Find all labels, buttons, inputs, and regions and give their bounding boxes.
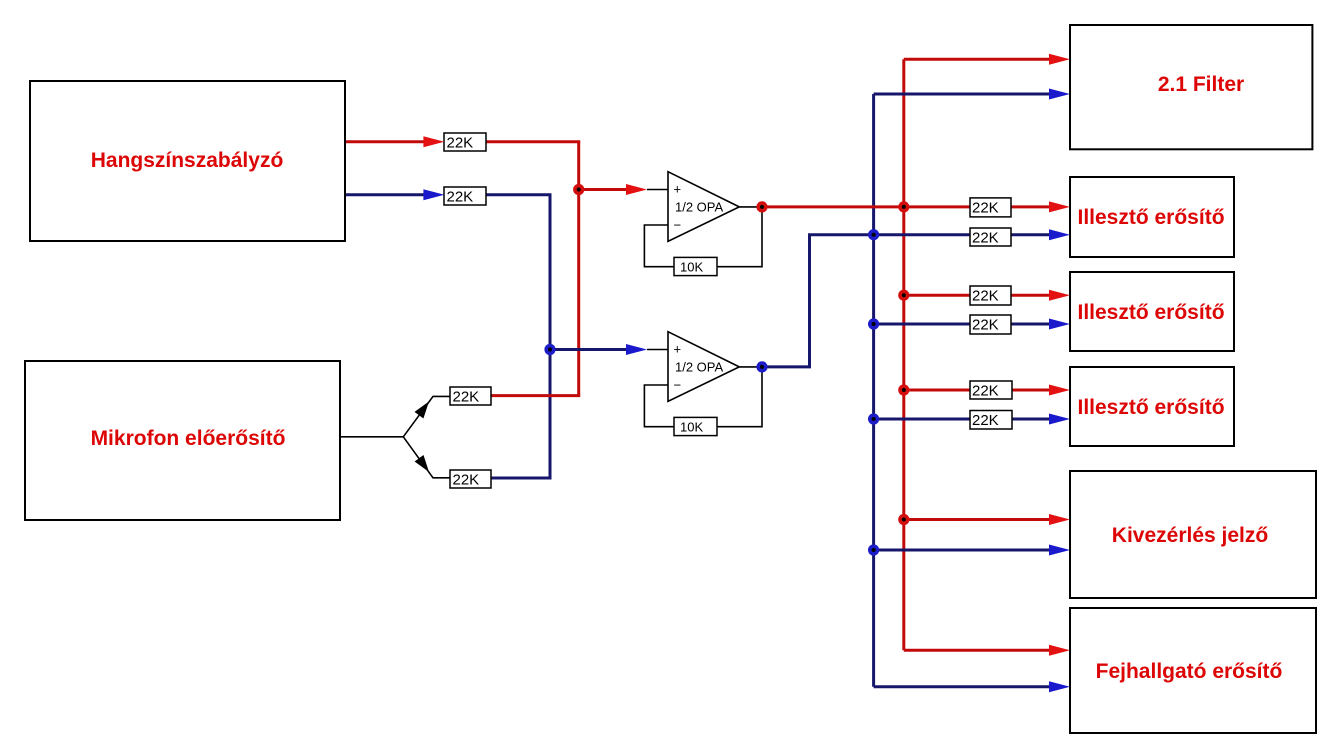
svg-text:2.1 Filter: 2.1 Filter — [1158, 73, 1244, 96]
svg-text:+: + — [674, 342, 682, 357]
svg-text:1/2 OPA: 1/2 OPA — [675, 360, 724, 375]
svg-text:10K: 10K — [680, 259, 703, 274]
svg-text:Kivezérlés jelző: Kivezérlés jelző — [1112, 524, 1268, 547]
svg-text:Illesztő erősítő: Illesztő erősítő — [1077, 396, 1224, 419]
svg-text:22K: 22K — [447, 134, 474, 151]
svg-text:22K: 22K — [972, 229, 999, 246]
svg-text:Mikrofon előerősítő: Mikrofon előerősítő — [91, 427, 286, 450]
svg-text:22K: 22K — [453, 471, 480, 488]
svg-text:22K: 22K — [453, 388, 480, 405]
svg-text:1/2 OPA: 1/2 OPA — [675, 200, 724, 215]
svg-text:10K: 10K — [680, 419, 703, 434]
svg-text:Illesztő erősítő: Illesztő erősítő — [1077, 206, 1224, 229]
svg-text:+: + — [674, 182, 682, 197]
svg-text:Illesztő erősítő: Illesztő erősítő — [1077, 301, 1224, 324]
svg-text:22K: 22K — [972, 317, 999, 334]
svg-text:−: − — [674, 378, 682, 393]
svg-text:22K: 22K — [972, 382, 999, 399]
svg-text:−: − — [674, 218, 682, 233]
svg-text:22K: 22K — [972, 199, 999, 216]
svg-text:22K: 22K — [447, 188, 474, 205]
svg-text:22K: 22K — [972, 412, 999, 429]
svg-text:22K: 22K — [972, 288, 999, 305]
svg-text:Fejhallgató erősítő: Fejhallgató erősítő — [1096, 660, 1283, 683]
svg-text:Hangszínszabályzó: Hangszínszabályzó — [91, 149, 284, 172]
